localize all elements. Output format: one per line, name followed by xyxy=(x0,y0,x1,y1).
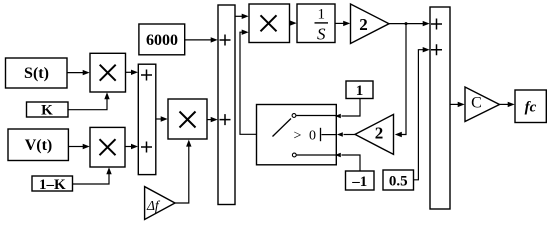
svg-text:C: C xyxy=(471,95,482,112)
wire X3 to SUM2 xyxy=(207,117,218,122)
wire delta-f to X3 bottom xyxy=(175,140,192,203)
svg-text:–1: –1 xyxy=(351,174,367,190)
svg-text:Δf: Δf xyxy=(146,198,161,213)
svg-text:6000: 6000 xyxy=(146,32,178,49)
block S(t) xyxy=(6,58,68,88)
gain triangle C xyxy=(465,87,500,122)
block fc (output) xyxy=(515,90,546,123)
wire SUM3 to gain C xyxy=(450,102,465,107)
summer SUM1 xyxy=(138,64,156,174)
wire switch output to X4 (feedback loop) xyxy=(240,30,257,135)
block K xyxy=(27,102,69,119)
multiplier X1 (top-left product) xyxy=(90,53,126,92)
wire 0.5 to SUM3 xyxy=(414,47,430,180)
gain triangle delta-f xyxy=(145,187,175,220)
wire X2 to SUM1 xyxy=(125,144,138,149)
svg-text:S: S xyxy=(317,25,326,44)
svg-text:1–K: 1–K xyxy=(39,177,66,193)
wire 6000 to SUM2 xyxy=(185,37,218,42)
wire X4 to 1/S xyxy=(290,20,297,25)
multiplier X2 (bottom-left product) xyxy=(90,127,125,167)
block V(t) xyxy=(8,129,68,161)
block 0.5 xyxy=(383,170,414,190)
wire 1/S to gain 2 top xyxy=(335,21,350,26)
node junction on gain-2 output xyxy=(405,22,408,25)
svg-text:>: > xyxy=(294,128,302,143)
svg-text:0.5: 0.5 xyxy=(389,174,408,190)
multiplier X4 (top product) xyxy=(249,4,290,43)
wire SUM1 to X3 xyxy=(156,116,168,121)
switch block > 0 xyxy=(257,105,337,165)
svg-text:fc: fc xyxy=(525,100,537,116)
wire -1 to switch bottom port xyxy=(335,153,360,171)
svg-text:S(t): S(t) xyxy=(24,65,49,82)
wire X1 to SUM1 xyxy=(126,70,139,75)
block 6000 xyxy=(139,24,185,55)
wire 1 to switch top port xyxy=(335,99,360,119)
block 1 (constant) xyxy=(346,81,373,99)
svg-text:2: 2 xyxy=(375,124,384,143)
wire gain 2 top to SUM3 xyxy=(389,21,430,26)
svg-text:1: 1 xyxy=(356,83,364,99)
integrator 1/S xyxy=(297,4,335,44)
block -1 (constant) xyxy=(346,171,375,190)
gain triangle 2 (lower, points left) xyxy=(355,114,394,154)
svg-text:0: 0 xyxy=(309,128,316,143)
svg-text:V(t): V(t) xyxy=(25,137,53,154)
wire K to X1 bottom xyxy=(68,92,110,109)
wire 1-K to X2 bottom xyxy=(73,167,112,184)
wire SUM2 to X4 xyxy=(235,14,249,19)
wire S(t) to X1 xyxy=(67,70,90,75)
summer SUM3 (tall right) xyxy=(430,7,450,209)
wire gain C to fc xyxy=(500,102,515,107)
svg-text:1: 1 xyxy=(318,7,326,23)
wire junction down to gain 2 lower xyxy=(395,24,406,138)
wire gain 2 lower to switch control xyxy=(337,132,355,137)
summer SUM2 (tall) xyxy=(218,5,235,205)
wire V(t) to X2 xyxy=(68,144,89,149)
block 1-K xyxy=(32,176,73,193)
svg-text:K: K xyxy=(41,103,53,119)
svg-text:2: 2 xyxy=(359,15,368,34)
multiplier X3 (middle product) xyxy=(168,99,207,139)
gain triangle 2 (top) xyxy=(351,4,390,44)
